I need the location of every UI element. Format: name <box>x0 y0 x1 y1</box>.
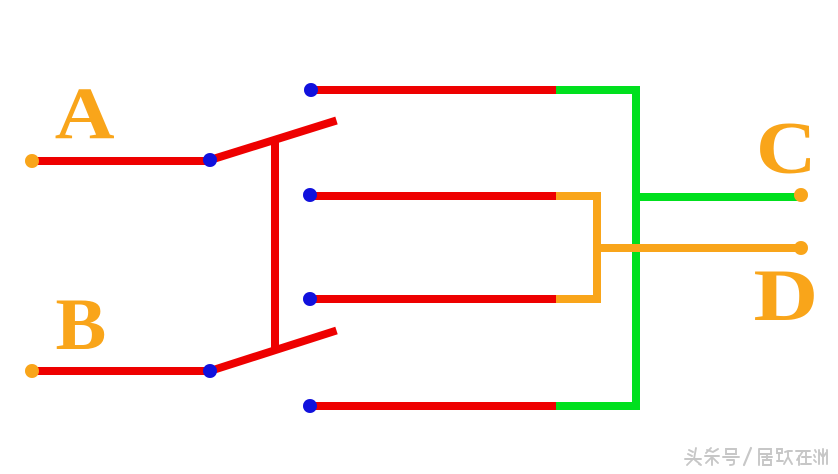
svg-text:C: C <box>756 108 816 190</box>
svg-text:D: D <box>754 254 819 336</box>
svg-text:A: A <box>55 72 115 154</box>
svg-text:B: B <box>56 284 107 366</box>
